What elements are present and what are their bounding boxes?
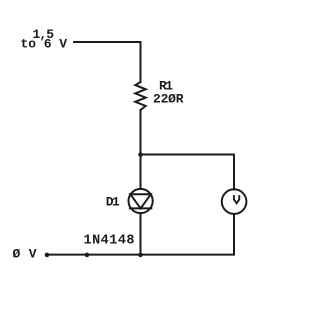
ground rail terminal dot mid [85,253,90,258]
svg-text:D1: D1 [106,195,120,210]
wire diode to ground rail [140,213,142,254]
wire branch to voltmeter [141,155,235,190]
voltmeter U1 [222,189,247,214]
voltmeter V symbol [234,195,239,203]
svg-text:22ØR: 22ØR [153,92,184,107]
diode D1 [129,189,153,213]
ground rail terminal dot left [45,253,50,258]
svg-text:to 6 V: to 6 V [21,37,68,52]
resistor R1 [135,82,145,110]
wire node A to diode [140,155,142,190]
ground rail junction dot [138,253,143,258]
node A junction dot [138,152,143,157]
svg-text:1N4148: 1N4148 [84,234,135,249]
wire supply top [74,42,141,82]
wire resistor to node A [140,110,142,155]
svg-text:Ø V: Ø V [13,246,37,261]
wire voltmeter to ground rail [47,214,234,255]
